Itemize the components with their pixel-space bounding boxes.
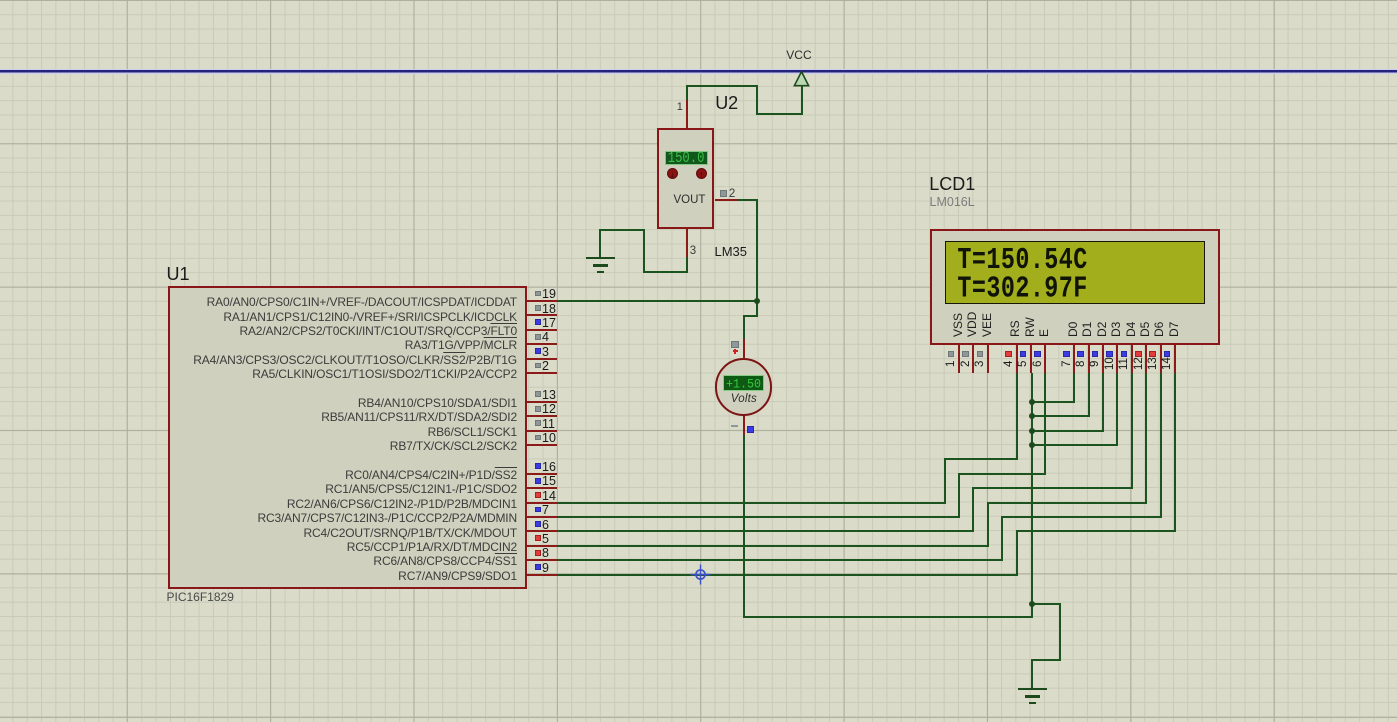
- U2 up button: [696, 168, 707, 179]
- U2 pin 1: [0, 0, 1397, 1]
- LCD1 pin 8 (D1): [0, 0, 1397, 1]
- junction: [1029, 413, 1035, 419]
- wire net GND: U2 pin3 to ground: [0, 0, 1397, 1]
- U1 pin 7: [0, 0, 1397, 1]
- wire GND branch to LCD pin10 D3: [0, 0, 1397, 1]
- U1 pin 16: [0, 0, 1397, 1]
- LCD1 pin 3 (VEE): [0, 0, 1397, 1]
- LCD1 pin 11 (D4): [0, 0, 1397, 1]
- U1 pin 10: [0, 0, 1397, 1]
- wire GND branch to bottom ground: [0, 0, 1397, 1]
- LCD1 pin 14 (D7): [0, 0, 1397, 1]
- U1 pin 8: [0, 0, 1397, 1]
- U2 reference label: [715, 93, 738, 114]
- ground symbol (near U2): [0, 0, 1397, 1]
- LCD1 pin 6 (E): [0, 0, 1397, 1]
- U2 down button: [667, 168, 678, 179]
- LCD display LCD1 LM016L body: [930, 229, 1220, 344]
- LCD1 pin 13 (D6): [0, 0, 1397, 1]
- sheet border line: [0, 69, 1397, 74]
- U1 pin 9: [0, 0, 1397, 1]
- junction: [1029, 601, 1035, 607]
- U2 value label LM35: [715, 244, 748, 259]
- junction: [1029, 399, 1035, 405]
- LCD1 value label LM016L: [930, 195, 975, 209]
- U1 reference label: [167, 264, 190, 285]
- origin crosshair marker: [690, 564, 711, 585]
- junction: [1029, 442, 1035, 448]
- wire GND branch to LCD pin7 D0: [0, 0, 1397, 1]
- wire net RS: U1 RC2 to LCD pin4: [0, 0, 1397, 1]
- U1 pin 2: [0, 0, 1397, 1]
- U1 pin 17: [0, 0, 1397, 1]
- wire GND branch to LCD pin9 D2: [0, 0, 1397, 1]
- LCD1 pin 7 (D0): [0, 0, 1397, 1]
- junction: [1029, 428, 1035, 434]
- U1 pin 13: [0, 0, 1397, 1]
- U1 pin 15: [0, 0, 1397, 1]
- LCD1 pin 1 (VSS): [0, 0, 1397, 1]
- LCD1 pin 9 (D2): [0, 0, 1397, 1]
- LCD1 pin 5 (RW): [0, 0, 1397, 1]
- U1 pin 11: [0, 0, 1397, 1]
- wire net D5: U1 RC5 to LCD pin12: [0, 0, 1397, 1]
- wire net D6: U1 RC6 to LCD pin13: [0, 0, 1397, 1]
- wire net E: U1 RC3 to LCD pin6: [0, 0, 1397, 1]
- wire GND branch to LCD pin8 D1: [0, 0, 1397, 1]
- LCD1 reference label: [929, 174, 975, 195]
- U1 pin 14: [0, 0, 1397, 1]
- U2 VOUT pin name: [674, 194, 706, 206]
- voltmeter units label Volts: [731, 393, 757, 405]
- wire net VCC: U2 pin1 to VCC arrow: [0, 0, 1397, 1]
- wire net D7: U1 RC7 to LCD pin14: [0, 0, 1397, 1]
- voltmeter - terminal pin: [0, 0, 1397, 1]
- wire net D4: U1 RC4 to LCD pin11: [0, 0, 1397, 1]
- U1 value label PIC16F1829: [167, 590, 234, 604]
- U2 temperature display 150.0: [665, 151, 707, 165]
- U1 pin 6: [0, 0, 1397, 1]
- wire net GND: voltmeter - to LCD and ground: [0, 0, 1397, 1]
- U1 pin 5: [0, 0, 1397, 1]
- LCD1 pin 4 (RS): [0, 0, 1397, 1]
- ground symbol (bottom right): [0, 0, 1397, 1]
- LCD1 pin 10 (D3): [0, 0, 1397, 1]
- wire net VOUT: U2 pin2 to U1 RA0 and voltmeter +: [0, 0, 1397, 1]
- voltmeter + terminal pin: [0, 0, 1397, 1]
- U1 pin 3: [0, 0, 1397, 1]
- U1 pin 19: [0, 0, 1397, 1]
- power symbol VCC: [0, 0, 1397, 1]
- U2 pin 3: [0, 0, 1397, 1]
- U1 pin 18: [0, 0, 1397, 1]
- U1 pin 12: [0, 0, 1397, 1]
- LCD1 pin 2 (VDD): [0, 0, 1397, 1]
- voltmeter display +1.50: [723, 375, 764, 391]
- LCD1 pin 12 (D5): [0, 0, 1397, 1]
- LCD1 screen: [945, 241, 1205, 304]
- U2 pin 2: [0, 0, 1397, 1]
- junction: VOUT net: [754, 298, 760, 304]
- voltmeter body: [715, 358, 773, 416]
- U1 pin 4: [0, 0, 1397, 1]
- IC U1 PIC16F1829 body: [168, 286, 527, 589]
- temperature sensor U2 LM35 body: [657, 128, 715, 229]
